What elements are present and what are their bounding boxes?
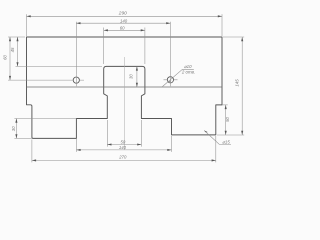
svg-text:⌀10: ⌀10 xyxy=(184,64,192,69)
left dim 45 extension (to boss) xyxy=(16,65,103,67)
svg-text:45: 45 xyxy=(10,47,15,52)
right dim 145 extensions xyxy=(217,37,244,135)
left dim 30 line (lower notch) xyxy=(15,119,17,139)
internal full-width edge xyxy=(27,86,223,88)
dim 140 extensions (to hole centers) xyxy=(76,22,170,74)
svg-text:145: 145 xyxy=(235,79,240,87)
hole right xyxy=(167,77,173,83)
left dim 60 extension xyxy=(8,36,25,38)
svg-text:2 отв.: 2 отв. xyxy=(181,70,195,75)
dim 60 line (boss width) xyxy=(104,29,145,31)
svg-text:30: 30 xyxy=(129,74,134,79)
hole left xyxy=(73,77,79,83)
svg-text:50: 50 xyxy=(225,117,230,122)
bottom dim 270 extensions xyxy=(32,136,216,162)
svg-text:⌀15: ⌀15 xyxy=(222,140,230,145)
bottom dim 140 line xyxy=(76,149,171,151)
svg-text:60: 60 xyxy=(3,55,8,60)
dim 290 extensions xyxy=(27,14,223,36)
part vertical centerline xyxy=(123,57,125,150)
hole right centerlines xyxy=(164,74,178,86)
boss dim 30 line xyxy=(136,66,138,87)
left dim 45 line (top to boss top) xyxy=(17,37,19,66)
dim 60 extensions xyxy=(104,28,145,65)
dim 290 line xyxy=(27,15,223,17)
svg-text:290: 290 xyxy=(118,11,127,17)
right dim 45 extension xyxy=(222,104,228,106)
svg-text:270: 270 xyxy=(118,154,127,159)
left dim 60 line (top to hole center) xyxy=(9,37,11,80)
bottom dim 140 extensions xyxy=(76,136,171,152)
svg-text:60: 60 xyxy=(120,26,125,31)
svg-text:140: 140 xyxy=(119,145,127,150)
hole left centerlines xyxy=(8,74,84,86)
left dim 30 extensions xyxy=(14,119,76,139)
hole callout leader xyxy=(163,69,194,86)
bottom dim 50 line (neck width) xyxy=(107,144,141,146)
corner callout leader xyxy=(204,131,231,145)
svg-text:140: 140 xyxy=(120,18,128,23)
right dim 45 line (right notch) xyxy=(225,105,227,135)
svg-text:50: 50 xyxy=(121,139,126,144)
bottom dim 270 line xyxy=(32,159,216,161)
svg-text:30: 30 xyxy=(11,126,16,131)
dim 140 line (hole spacing) xyxy=(76,22,170,24)
part outline xyxy=(27,37,223,138)
right dim 145 line (total height) xyxy=(241,37,243,135)
bottom dim 50 extensions xyxy=(107,120,141,147)
